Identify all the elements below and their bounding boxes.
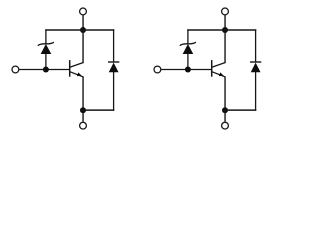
wire: diode anode down to bottom link (255, 72, 257, 111)
junction dot (base node) (43, 67, 49, 73)
transistor BQ collector stroke (212, 63, 225, 68)
wire: zener anode down to base node (45, 54, 47, 70)
wire: diode branch upper (rail down to diode cathode) (113, 29, 115, 62)
transistor AQ collector stroke (70, 63, 83, 68)
wire: base wire (19, 69, 69, 71)
wire: diode anode down to bottom link (113, 72, 115, 111)
wire: top terminal A1 to top rail (82, 15, 84, 30)
right circuit (protection network B) (154, 8, 261, 129)
terminal A3 (bottom) (80, 122, 87, 129)
wire: emitter down to bottom node (224, 76, 226, 110)
junction dot (base node) (185, 67, 191, 73)
left circuit (protection network A) (12, 8, 119, 129)
wire: bottom link to diode branch (82, 109, 114, 111)
wire: top terminal B1 to top rail (224, 15, 226, 30)
wire: zener anode down to base node (187, 54, 189, 70)
junction dot (bottom node) (222, 107, 228, 113)
diode AD (cathode up) (108, 62, 119, 72)
transistor BQ emitter stroke (212, 72, 225, 77)
junction dot (top rail / terminal B1) (222, 27, 228, 33)
terminal B2 (left / base input) (154, 66, 161, 73)
wire: top rail down to zener cathode (45, 29, 47, 44)
transistor AQ emitter stroke (70, 72, 83, 77)
transistor BQ (NPN) base bar (211, 60, 213, 77)
terminal A1 (top) (80, 8, 87, 15)
wire: bottom node to bottom terminal A3 (82, 110, 84, 122)
wire: top rail (45, 29, 114, 31)
wire: collector up to top rail (82, 29, 84, 63)
zener diode AZ (cathode up) (38, 42, 54, 54)
wire: diode branch upper (rail down to diode cathode) (255, 29, 257, 62)
transistor AQ (NPN) base bar (69, 60, 71, 77)
transistor AQ emitter arrow (77, 72, 82, 76)
terminal B1 (top) (222, 8, 229, 15)
wire: top rail (187, 29, 256, 31)
zener diode BZ (cathode up) (180, 42, 196, 54)
junction dot (top rail / terminal A1) (80, 27, 86, 33)
wire: collector up to top rail (224, 29, 226, 63)
wire: base wire (161, 69, 211, 71)
junction dot (bottom node) (80, 107, 86, 113)
wire: top rail down to zener cathode (187, 29, 189, 44)
wire: emitter down to bottom node (82, 76, 84, 110)
wire: bottom node to bottom terminal B3 (224, 110, 226, 122)
transistor BQ emitter arrow (219, 72, 224, 76)
terminal A2 (left / base input) (12, 66, 19, 73)
wire: bottom link to diode branch (224, 109, 256, 111)
terminal B3 (bottom) (222, 122, 229, 129)
diode BD (cathode up) (250, 62, 261, 72)
